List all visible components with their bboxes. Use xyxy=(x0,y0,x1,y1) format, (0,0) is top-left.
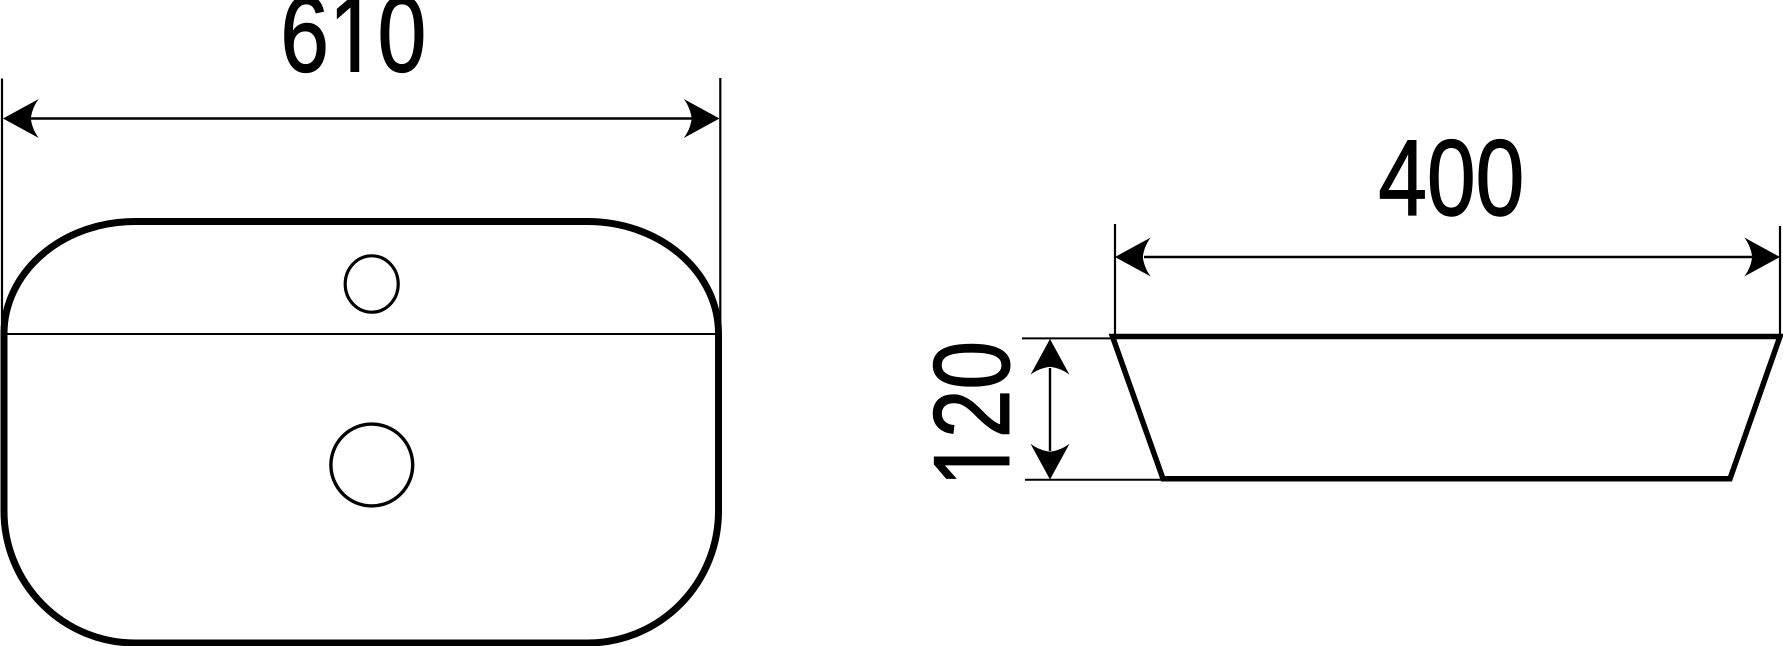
extension line left (610) xyxy=(1,79,3,337)
extension line top (120) xyxy=(1022,337,1113,339)
basin side view profile xyxy=(1113,337,1781,479)
dimension text 120 xyxy=(933,344,1009,478)
extension line left (400) xyxy=(1114,224,1116,336)
arrowhead down (120) xyxy=(1031,444,1070,480)
extension line bottom (120) xyxy=(1025,479,1164,481)
arrowhead up (120) xyxy=(1031,339,1070,375)
basin rim line xyxy=(3,333,720,335)
dimension line 610 xyxy=(29,117,693,119)
dimension line 120 xyxy=(1049,368,1051,451)
arrowhead right (400) xyxy=(1744,238,1780,277)
basin top view outline xyxy=(4,222,719,644)
dimension text 400 xyxy=(1380,140,1521,216)
extension line right (610) xyxy=(719,78,721,336)
arrowhead left (400) xyxy=(1115,238,1151,277)
arrowhead right (610) xyxy=(684,99,720,138)
drain hole xyxy=(331,424,413,506)
arrowhead left (610) xyxy=(3,99,39,138)
dimension line 400 xyxy=(1144,256,1752,258)
faucet hole xyxy=(345,256,398,312)
extension line right (400) xyxy=(1779,226,1781,337)
dimension text 610 xyxy=(285,0,423,72)
